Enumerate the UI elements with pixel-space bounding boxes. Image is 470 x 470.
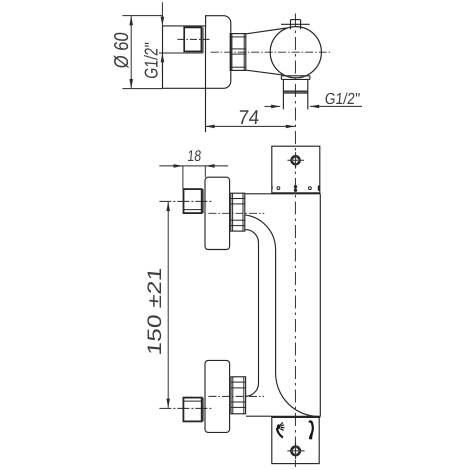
lower valve centerline [209, 395, 265, 397]
upper pipe top edge [246, 193, 272, 195]
cold icon [277, 422, 285, 437]
temperature tab [281, 20, 310, 30]
svg-text:Ø 60: Ø 60 [111, 31, 133, 69]
outlet pipe G1/2 [283, 79, 307, 109]
dimension 150 +/-21 [166, 202, 170, 408]
lower union cap [183, 398, 203, 422]
svg-text:18: 18 [187, 148, 202, 165]
riser pipe right outline [245, 215, 319, 417]
dimension 18 [159, 164, 228, 189]
wall projection line [205, 26, 207, 132]
lower ribbed nut [231, 377, 246, 414]
lower union centerline [159, 407, 211, 409]
dimension Ø60 [122, 16, 162, 89]
upper screw [287, 152, 304, 168]
svg-text:G1/2": G1/2" [324, 90, 361, 108]
upper wall plate [272, 146, 321, 193]
hex nut (top view) [230, 34, 246, 71]
lower valve body [205, 360, 230, 432]
horizontal axis centerline (top view) [211, 51, 332, 53]
upper union centerline [159, 200, 211, 202]
svg-text:G1/2": G1/2" [141, 42, 162, 80]
riser pipe left outline [246, 230, 259, 397]
inlet centerline [178, 38, 212, 40]
cone escutcheon [246, 28, 286, 75]
wall column right edge [319, 194, 321, 417]
lower screw [287, 443, 304, 460]
hot icon [309, 421, 313, 439]
upper valve body [205, 177, 230, 249]
vertical axis centerline (through both views) [294, 14, 296, 468]
lower pipe bottom edge [246, 415, 272, 417]
upper union cap [184, 189, 204, 213]
dimension G1/2 inlet [161, 2, 165, 75]
svg-text:150 ±21: 150 ±21 [144, 266, 166, 356]
inlet square G1/2 (top view) [159, 27, 203, 53]
dimension 74 [205, 125, 295, 129]
handle circle Ø60 [270, 27, 321, 78]
upper valve centerline [209, 212, 265, 214]
mixer body (top view) [163, 16, 231, 89]
upper ribbed nut [231, 193, 245, 231]
outlet collar [281, 76, 310, 80]
dimension G1/2 outlet [265, 105, 363, 109]
svg-text:74: 74 [237, 107, 260, 129]
lower wall plate [272, 417, 321, 464]
